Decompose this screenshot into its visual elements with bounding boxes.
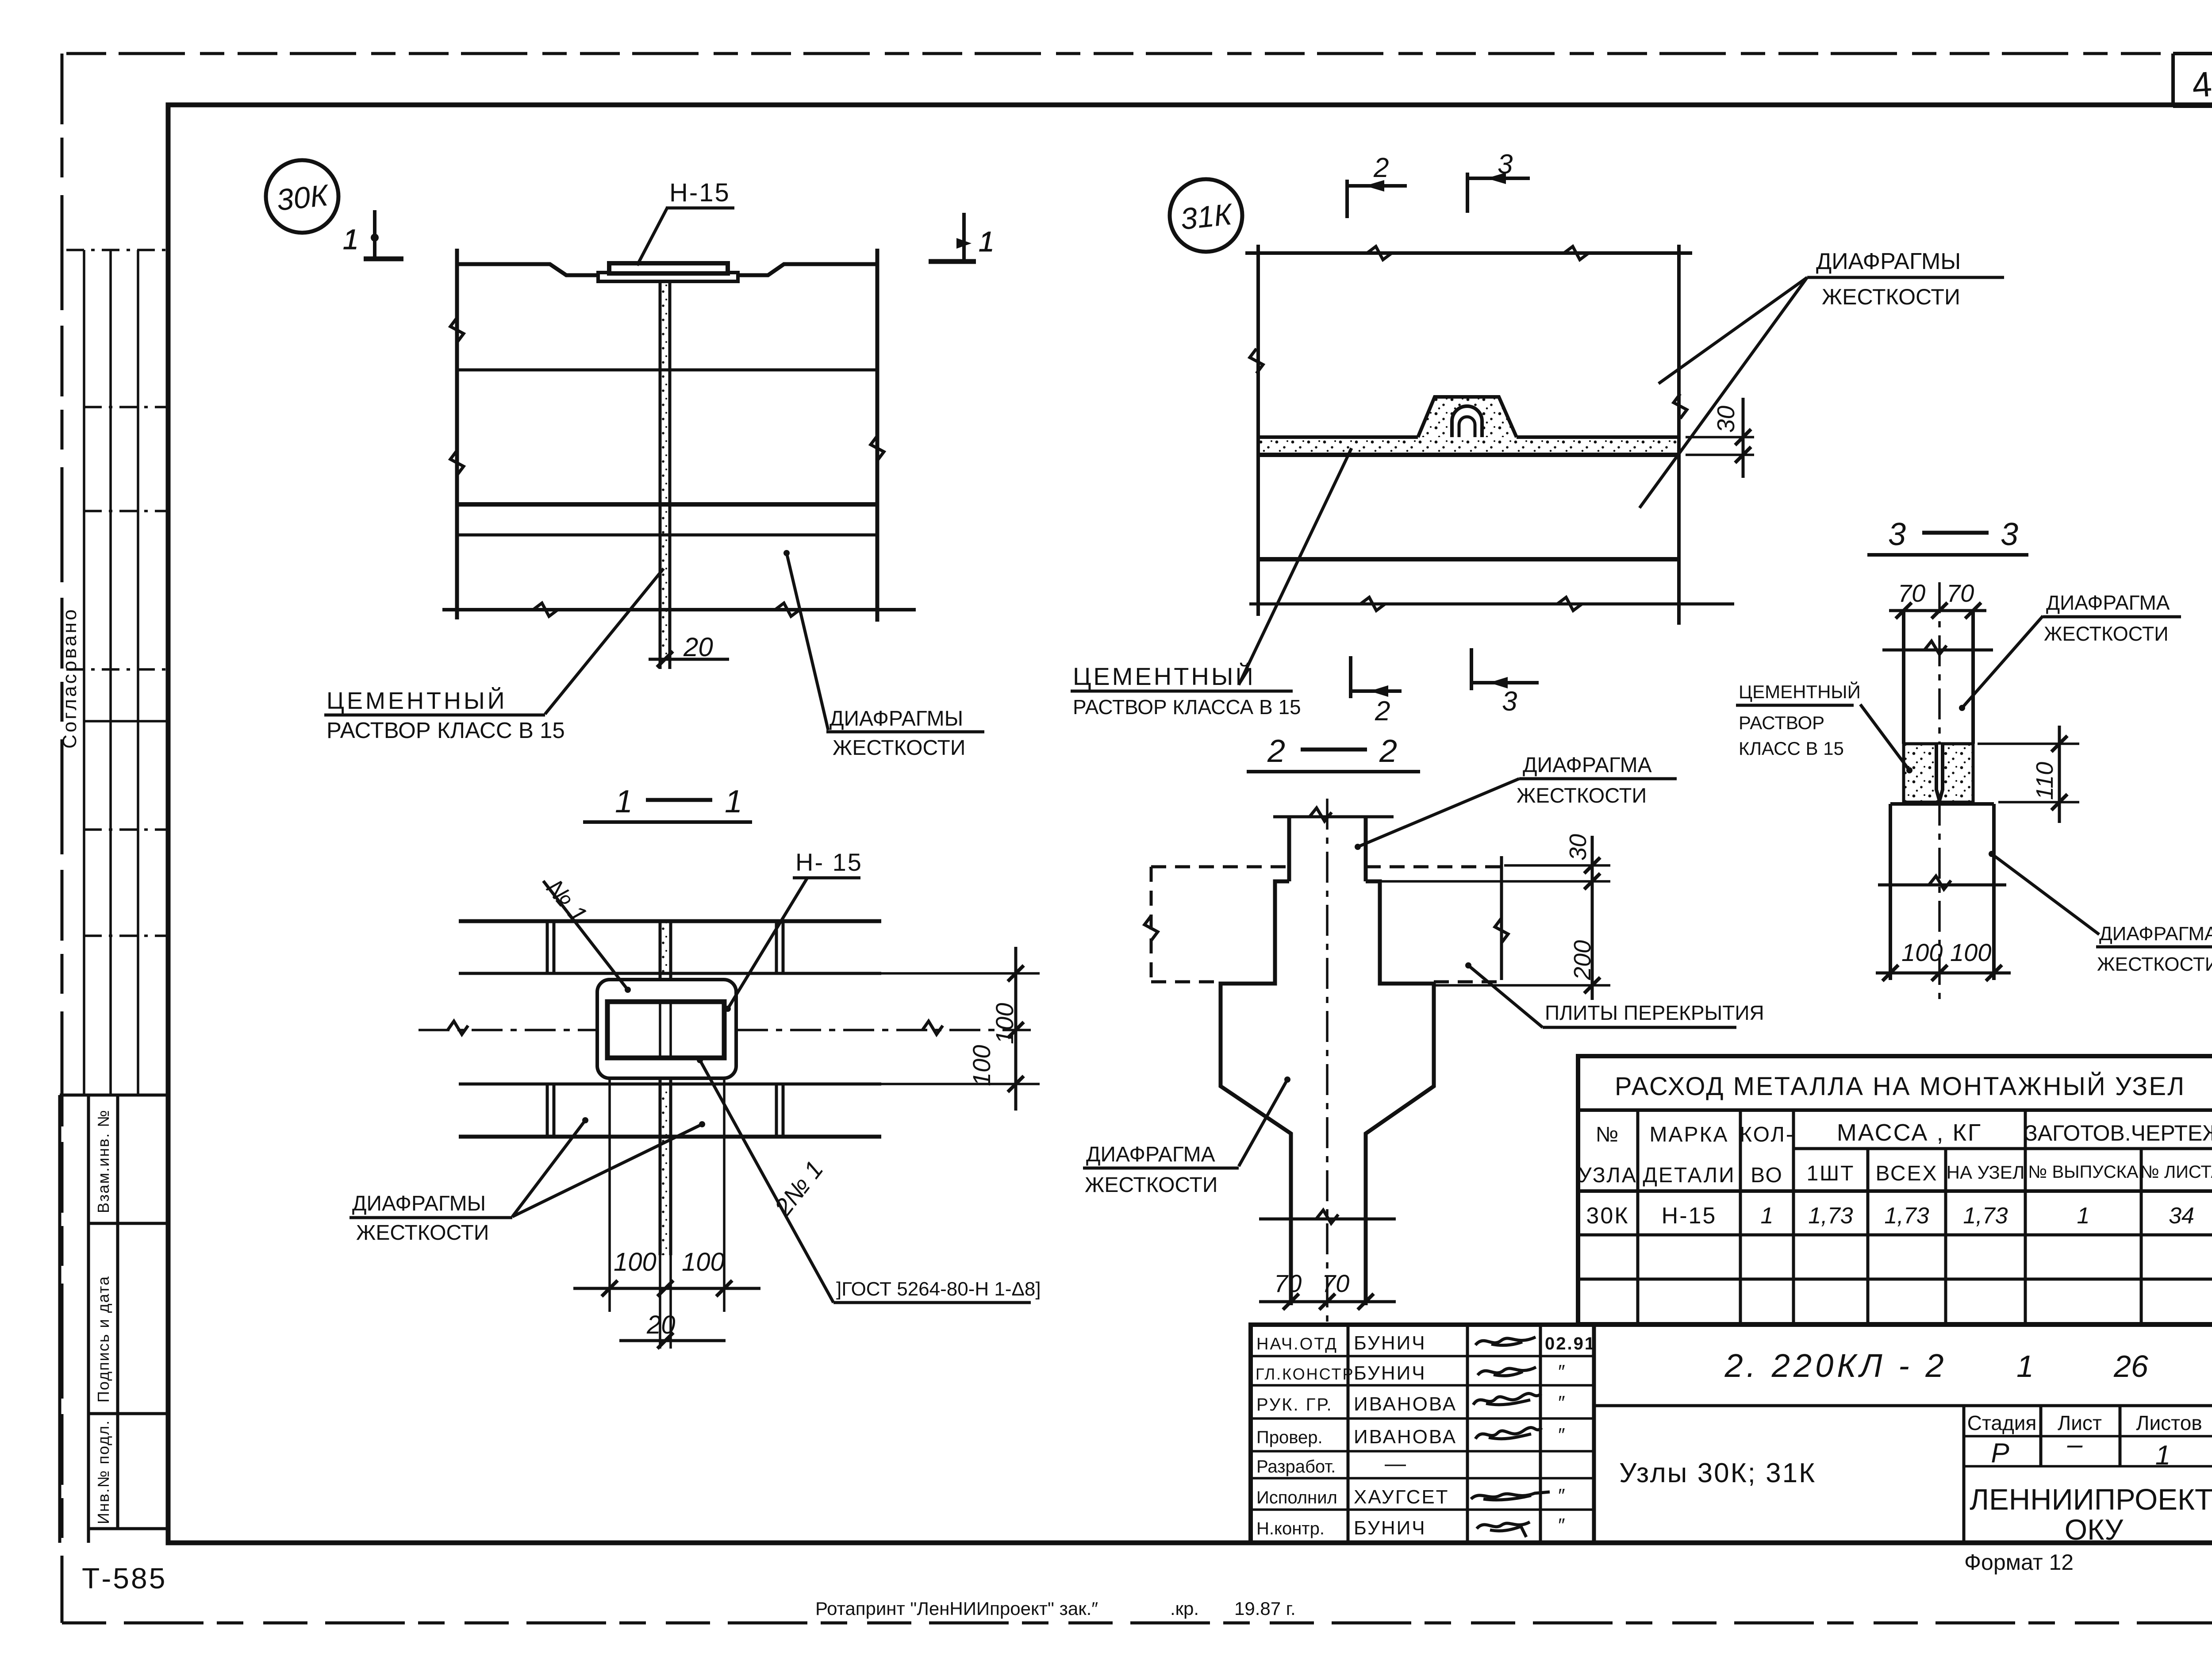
svg-text:Исполнил: Исполнил	[1256, 1488, 1337, 1507]
cement mortar zone 3-3	[1904, 744, 1973, 802]
svg-text:–: –	[2067, 1429, 2083, 1460]
dim 70 70 top	[1889, 609, 1986, 612]
plate H-15 in plan	[607, 1002, 724, 1058]
floor line thin	[457, 534, 877, 537]
floor line thick	[457, 502, 877, 507]
panel bottom edge	[442, 608, 916, 611]
centerline 3-3	[1938, 582, 1941, 1004]
svg-text:ЖЕСТКОСТИ: ЖЕСТКОСТИ	[2044, 623, 2169, 645]
svg-text:ВО: ВО	[1751, 1164, 1783, 1187]
svg-text:ВСЕХ: ВСЕХ	[1875, 1162, 1938, 1185]
svg-text:БУНИЧ: БУНИЧ	[1354, 1362, 1426, 1384]
svg-text:ЦЕМЕНТНЫЙ: ЦЕМЕНТНЫЙ	[1073, 662, 1256, 690]
floor line upper	[457, 369, 877, 372]
svg-text:Инв.№ подл.: Инв.№ подл.	[94, 1420, 112, 1524]
svg-text:30: 30	[1712, 405, 1740, 433]
break mark right edge	[871, 436, 884, 461]
inner frame	[168, 105, 2212, 1543]
dimension 30 200 right	[1504, 864, 1610, 867]
section mark 1 left	[343, 210, 403, 259]
dimension 20 joint	[619, 1339, 726, 1342]
svg-text:НАЧ.ОТД: НАЧ.ОТД	[1256, 1335, 1338, 1353]
svg-text:″: ″	[1557, 1361, 1565, 1383]
leader N1	[543, 881, 628, 990]
svg-text:Подпись и дата: Подпись и дата	[94, 1276, 112, 1403]
svg-text:БУНИЧ: БУНИЧ	[1354, 1517, 1426, 1539]
upper diaphragm column	[1287, 817, 1291, 881]
break line upper column	[1882, 649, 1993, 652]
svg-text:1: 1	[2155, 1440, 2170, 1471]
section flag 3 top	[1467, 173, 1530, 213]
lower connection plate	[598, 273, 738, 281]
svg-text:Н-15: Н-15	[669, 178, 730, 207]
svg-text:100: 100	[991, 1003, 1018, 1044]
dim 100 100 bottom 3-3	[1876, 972, 2011, 975]
mortar bed band	[1257, 438, 1679, 454]
svg-text:Согласовано: Согласовано	[59, 607, 81, 749]
svg-text:1: 1	[343, 223, 359, 255]
svg-text:1,73: 1,73	[1963, 1203, 2008, 1229]
break marks on bottom edge	[533, 603, 558, 616]
joint seam in mortar	[1936, 745, 1943, 801]
svg-text:1: 1	[1761, 1203, 1774, 1229]
left approval column grid	[66, 250, 168, 1095]
plan wall outer face bottom	[459, 1135, 881, 1139]
leader plity	[1468, 965, 1543, 1027]
svg-text:ПЛИТЫ ПЕРЕКРЫТИЯ: ПЛИТЫ ПЕРЕКРЫТИЯ	[1545, 1001, 1764, 1024]
lower block 3-3	[1890, 802, 1994, 806]
svg-text:РУК. ГР.: РУК. ГР.	[1256, 1395, 1333, 1414]
svg-text:ОКУ: ОКУ	[2065, 1513, 2124, 1546]
svg-text:Формат 12: Формат 12	[1964, 1550, 2074, 1575]
leader H-15 section	[728, 878, 807, 1009]
break marks top edge	[1367, 246, 1392, 260]
svg-text:2: 2	[1375, 696, 1390, 726]
svg-text:Н-15: Н-15	[1662, 1203, 1717, 1229]
svg-text:№: №	[1596, 1123, 1620, 1146]
joint through plate	[659, 1002, 661, 1058]
svg-text:Ротапринт "ЛенНИИпроект" зак: Ротапринт "ЛенНИИпроект" зак.″	[815, 1598, 1098, 1619]
svg-text:РАСТВОР: РАСТВОР	[1739, 712, 1824, 733]
chamfer ticks left panel	[546, 921, 549, 973]
diaphragm profile outline	[1221, 881, 1291, 1305]
section flag 2 top	[1347, 180, 1407, 218]
svg-text:РАСХОД МЕТАЛЛА НА МОНТАЖНЫЙ: РАСХОД МЕТАЛЛА НА МОНТАЖНЫЙ УЗЕЛ	[1615, 1072, 2185, 1101]
svg-text:РАСТВОР КЛАСС В 15: РАСТВОР КЛАСС В 15	[326, 718, 565, 743]
svg-text:ЛЕННИИПРОЕКТ: ЛЕННИИПРОЕКТ	[1970, 1483, 2212, 1516]
leader cement 3-3	[1860, 704, 1909, 770]
recess rounded outline	[597, 980, 736, 1078]
svg-text:1: 1	[2077, 1203, 2090, 1229]
centerline 2-2	[1326, 799, 1329, 1322]
chamfer ticks right panel	[775, 921, 778, 973]
svg-text:ИВАНОВА: ИВАНОВА	[1354, 1393, 1457, 1415]
keyway hump	[1418, 397, 1517, 437]
reinforcing loop outer	[1452, 406, 1482, 437]
joint vertical in plan	[660, 921, 671, 1255]
dim 110 right	[1978, 742, 2079, 745]
hidden slab left	[1151, 867, 1289, 982]
svg-text:ЖЕСТКОСТИ: ЖЕСТКОСТИ	[833, 736, 965, 760]
svg-text:Н- 15: Н- 15	[795, 848, 863, 876]
svg-text:70: 70	[1322, 1269, 1349, 1297]
svg-text:02.91: 02.91	[1545, 1334, 1596, 1353]
cement joint 30K	[660, 281, 670, 666]
leader diaphragm A	[1659, 277, 1807, 384]
svg-text:1: 1	[615, 784, 633, 819]
svg-text:ДИАФРАГМЫ: ДИАФРАГМЫ	[1816, 249, 1961, 274]
svg-text:3: 3	[1502, 686, 1517, 717]
svg-text:″: ″	[1557, 1424, 1565, 1446]
svg-text:3: 3	[1888, 517, 1906, 552]
lower-left stamp table	[60, 1095, 168, 1543]
svg-text:РАСТВОР КЛАССА В 15: РАСТВОР КЛАССА В 15	[1073, 696, 1301, 719]
leader diaphragm 2-2 bottom	[1239, 1080, 1287, 1166]
svg-text:МАРКА: МАРКА	[1650, 1123, 1729, 1146]
section mark 1 right	[929, 213, 995, 261]
svg-text:№ ВЫПУСКА: № ВЫПУСКА	[2028, 1162, 2138, 1182]
svg-text:2. 220КЛ - 2: 2. 220КЛ - 2	[1724, 1347, 1947, 1384]
svg-text:1,73: 1,73	[1808, 1203, 1853, 1229]
svg-text:ДЕТАЛИ: ДЕТАЛИ	[1643, 1164, 1735, 1187]
svg-text:.кр.: .кр.	[1170, 1598, 1199, 1619]
break mark 31K right edge	[1674, 394, 1687, 419]
31K panel right edge	[1677, 245, 1681, 625]
svg-text:42: 42	[2191, 63, 2212, 105]
svg-text:Взам.инв. №: Взам.инв. №	[94, 1109, 112, 1213]
svg-text:ЖЕСТКОСТИ: ЖЕСТКОСТИ	[356, 1221, 489, 1245]
svg-text:2: 2	[1373, 153, 1389, 183]
leader diaphragm B	[1640, 277, 1807, 508]
node marker circle 30K	[266, 160, 338, 233]
dimension 30 right of band	[1686, 436, 1754, 438]
svg-text:″: ″	[1557, 1514, 1565, 1536]
svg-text:Стадия: Стадия	[1967, 1411, 2037, 1434]
svg-text:31К: 31К	[1179, 197, 1235, 236]
svg-text:]ГОСТ 5264-80-Н 1-Δ8]: ]ГОСТ 5264-80-Н 1-Δ8]	[836, 1278, 1041, 1300]
dimension line 100 100	[573, 1287, 760, 1290]
svg-text:ГЛ.КОНСТР: ГЛ.КОНСТР	[1256, 1365, 1354, 1383]
svg-text:″: ″	[1557, 1392, 1565, 1414]
svg-text:№ ЛИСТА: № ЛИСТА	[2140, 1162, 2212, 1182]
svg-text:ИВАНОВА: ИВАНОВА	[1354, 1426, 1457, 1448]
page number box 42	[2173, 54, 2212, 106]
svg-text:НА УЗЕЛ: НА УЗЕЛ	[1947, 1162, 2025, 1183]
svg-text:″: ″	[1557, 1485, 1565, 1507]
wall panel right edge	[876, 249, 879, 622]
signatures squiggles	[1471, 1337, 1550, 1537]
svg-text:Р: Р	[1991, 1438, 2009, 1468]
reinforcing loop inner	[1459, 417, 1475, 437]
svg-text:Разработ.: Разработ.	[1256, 1457, 1336, 1476]
31K panel top edge	[1245, 251, 1692, 255]
svg-text:УЗЛА: УЗЛА	[1578, 1164, 1637, 1187]
svg-text:КОЛ-: КОЛ-	[1740, 1123, 1794, 1146]
svg-text:Н.контр.: Н.контр.	[1256, 1519, 1325, 1538]
plate H-15	[609, 263, 728, 273]
break mark 31K left edge	[1250, 349, 1263, 373]
svg-text:1: 1	[2016, 1349, 2034, 1384]
upper diaphragm column 3-3	[1902, 611, 1905, 744]
svg-text:70: 70	[1947, 579, 1974, 607]
svg-text:1: 1	[979, 226, 995, 258]
svg-text:20: 20	[646, 1311, 676, 1339]
svg-text:26: 26	[2113, 1349, 2148, 1384]
31K panel bottom edge	[1249, 603, 1734, 606]
break mark left edge	[450, 318, 464, 342]
svg-text:34: 34	[2169, 1203, 2194, 1229]
svg-text:1ШТ: 1ШТ	[1806, 1162, 1855, 1185]
section flag 2 bottom	[1351, 656, 1402, 698]
svg-text:30К: 30К	[1586, 1203, 1629, 1229]
svg-text:Листов: Листов	[2136, 1411, 2202, 1434]
top break line of diaphragm	[1273, 815, 1394, 819]
svg-text:ДИАФРАГМА: ДИАФРАГМА	[1523, 753, 1652, 777]
long bottom line with breaks	[1360, 597, 1385, 611]
svg-text:100: 100	[1901, 938, 1943, 966]
leader diaphragm 3-3 bottom	[1992, 854, 2099, 934]
right dimension line	[1014, 947, 1018, 1111]
svg-text:ХАУГСЕТ: ХАУГСЕТ	[1354, 1486, 1449, 1508]
leaders diaphragms 1-1	[512, 1120, 585, 1217]
svg-text:2: 2	[1267, 734, 1285, 769]
svg-text:ЖЕСТКОСТИ: ЖЕСТКОСТИ	[1085, 1173, 1217, 1197]
section flag 3 bottom	[1471, 648, 1539, 690]
svg-text:100: 100	[614, 1248, 657, 1276]
svg-text:100: 100	[968, 1045, 995, 1086]
wall panel left edge	[455, 249, 459, 619]
svg-text:ДИАФРАГМА: ДИАФРАГМА	[2046, 591, 2170, 614]
svg-text:ЗАГОТОВ.ЧЕРТЕЖ: ЗАГОТОВ.ЧЕРТЕЖ	[2024, 1121, 2212, 1145]
svg-text:ЦЕМЕНТНЫЙ: ЦЕМЕНТНЫЙ	[1739, 681, 1861, 702]
svg-text:70: 70	[1274, 1269, 1302, 1297]
svg-text:19.87 г.: 19.87 г.	[1234, 1598, 1296, 1619]
svg-text:ЦЕМЕНТНЫЙ: ЦЕМЕНТНЫЙ	[326, 687, 507, 714]
svg-text:КЛАСС В 15: КЛАСС В 15	[1739, 738, 1844, 759]
svg-text:3: 3	[1498, 149, 1513, 180]
extension lines bottom dims	[608, 1080, 611, 1312]
svg-text:200: 200	[1569, 940, 1596, 980]
leader cement 31K	[1239, 448, 1352, 685]
svg-text:1,73: 1,73	[1884, 1203, 1929, 1229]
svg-text:Узлы 30К; 31К: Узлы 30К; 31К	[1619, 1458, 1816, 1488]
svg-text:ДИАФРАГМА: ДИАФРАГМА	[2099, 923, 2212, 945]
svg-text:100: 100	[682, 1248, 725, 1276]
svg-text:1: 1	[725, 784, 742, 819]
leader GOST	[700, 1060, 833, 1303]
svg-text:30: 30	[1565, 834, 1591, 861]
dimension 70 70 bottom	[1259, 1300, 1396, 1303]
panel top edge with recess	[457, 264, 599, 275]
svg-text:ЖЕСТКОСТИ: ЖЕСТКОСТИ	[1517, 784, 1647, 807]
svg-text:100: 100	[1950, 938, 1991, 966]
plan wall outer face top	[459, 919, 881, 923]
svg-text:Т-585: Т-585	[82, 1562, 167, 1595]
svg-text:30К: 30К	[275, 178, 331, 217]
break line lower block	[1878, 884, 2006, 887]
svg-text:2: 2	[1379, 734, 1397, 769]
right vertical dimension extensions	[881, 972, 1040, 975]
node marker circle 31K	[1170, 179, 1242, 252]
leader H-15	[637, 208, 667, 265]
svg-text:20: 20	[683, 632, 713, 662]
dimension 20 under joint	[649, 658, 729, 661]
svg-text:Провер.: Провер.	[1256, 1428, 1323, 1447]
svg-text:ДИАФРАГМЫ: ДИАФРАГМЫ	[829, 707, 963, 730]
stem break line	[1259, 1218, 1396, 1221]
svg-text:ЖЕСТКОСТИ: ЖЕСТКОСТИ	[2097, 953, 2212, 975]
leader cement 30K	[545, 569, 664, 714]
svg-text:70: 70	[1898, 579, 1925, 607]
31K panel left edge	[1256, 245, 1260, 616]
plan recess line top	[459, 972, 881, 975]
centerline	[419, 1029, 1031, 1031]
leader diaphragm 2-2 top	[1358, 779, 1519, 847]
svg-text:ЖЕСТКОСТИ: ЖЕСТКОСТИ	[1822, 284, 1960, 309]
svg-text:3: 3	[2001, 517, 2018, 552]
svg-text:МАССА , КГ: МАССА , КГ	[1837, 1119, 1982, 1146]
svg-text:ДИАФРАГМА: ДИАФРАГМА	[1086, 1143, 1215, 1166]
plan recess line bottom	[459, 1083, 881, 1086]
svg-text:ДИАФРАГМЫ: ДИАФРАГМЫ	[352, 1192, 486, 1215]
svg-text:—: —	[1385, 1452, 1406, 1476]
svg-text:БУНИЧ: БУНИЧ	[1354, 1332, 1426, 1354]
leader diaphragm 3-3 top	[1962, 616, 2043, 708]
hidden slab right	[1366, 867, 1502, 982]
internal line below band	[1258, 557, 1679, 561]
svg-text:110: 110	[2032, 762, 2058, 800]
leader diaphragms 30K	[787, 553, 828, 730]
